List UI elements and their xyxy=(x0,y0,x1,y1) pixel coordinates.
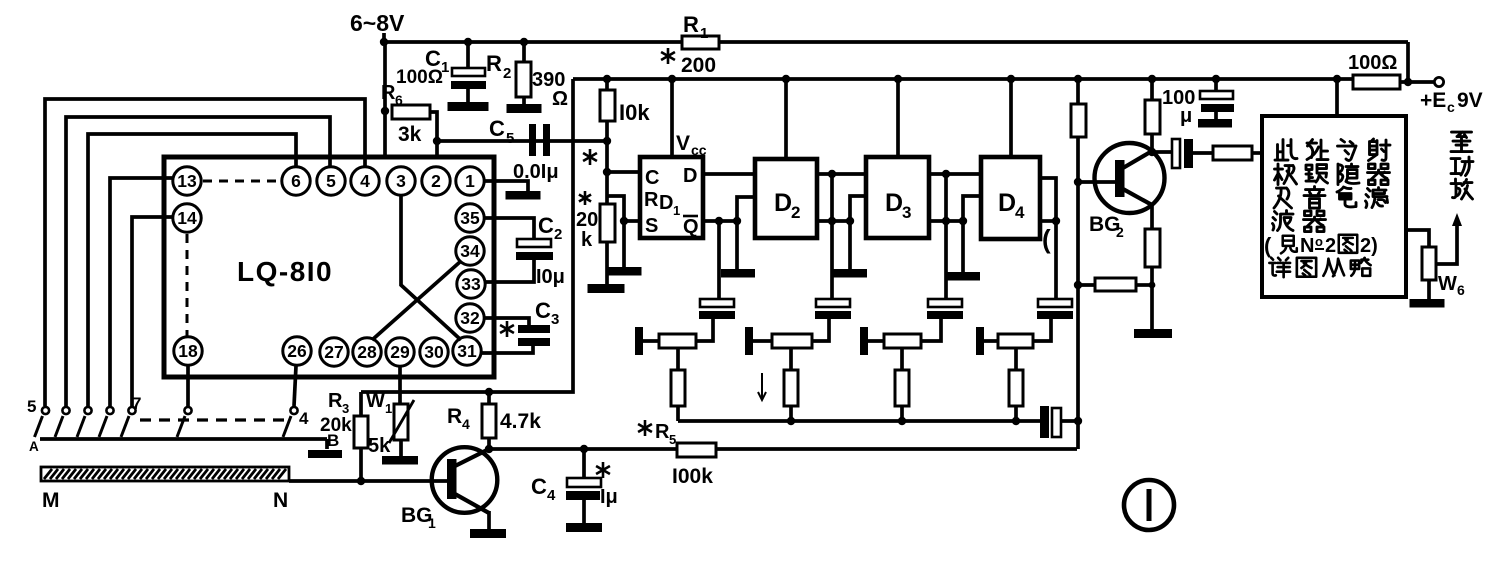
label D4 xyxy=(998,189,1025,222)
svg-text:A: A xyxy=(29,439,39,454)
svg-text:4.7k: 4.7k xyxy=(500,410,541,433)
label C5 value 0.01u xyxy=(513,161,559,183)
svg-text:34: 34 xyxy=(460,241,480,261)
svg-text:+E: +E xyxy=(1420,89,1446,112)
svg-text:2: 2 xyxy=(554,226,562,243)
label R4 xyxy=(447,405,470,432)
label C4 value 1u xyxy=(596,462,618,508)
pin 26 xyxy=(283,337,311,365)
wire +Ec rail xyxy=(573,78,1434,86)
wire pin18 drop xyxy=(186,366,190,406)
svg-text:W: W xyxy=(1438,273,1457,295)
label M xyxy=(42,489,60,512)
svg-text:(: ( xyxy=(1264,233,1272,258)
pin 35 xyxy=(456,204,484,232)
svg-text:C: C xyxy=(538,213,554,238)
pin 30 xyxy=(420,338,448,366)
stage block D3 xyxy=(866,157,929,238)
pin 3 xyxy=(387,167,415,195)
label box line5 xyxy=(1264,233,1378,258)
svg-text:I0k: I0k xyxy=(619,100,650,125)
svg-text:100Ω: 100Ω xyxy=(1348,52,1397,74)
wire pin3 to pin31 xyxy=(401,196,461,340)
svg-text:R: R xyxy=(486,51,502,76)
svg-text:I0μ: I0μ xyxy=(536,266,565,288)
label R5 xyxy=(638,420,676,447)
resistor 20k xyxy=(600,204,615,284)
svg-text:1: 1 xyxy=(385,401,392,416)
svg-text:6~8V: 6~8V xyxy=(350,10,405,36)
wire RD1 Q to D2 xyxy=(703,197,755,269)
wire pin6 loop xyxy=(88,134,296,406)
label W1 value 5k xyxy=(368,435,391,457)
pin 5 xyxy=(317,167,345,195)
label box line2 xyxy=(1275,164,1390,185)
svg-text:5: 5 xyxy=(506,130,514,147)
label C2 xyxy=(538,213,562,243)
label R3 xyxy=(328,390,349,416)
svg-text:k: k xyxy=(581,229,593,251)
label C5 xyxy=(489,116,514,147)
pin 27 xyxy=(320,338,348,366)
ground under W6 xyxy=(1410,299,1445,308)
svg-text:3: 3 xyxy=(902,203,911,222)
label to power amp xyxy=(1451,132,1473,199)
svg-text:14: 14 xyxy=(177,208,197,228)
svg-text:R: R xyxy=(655,421,670,443)
flip-flop RD1 xyxy=(640,157,703,238)
label figure 1 xyxy=(1124,480,1174,530)
label Vcc xyxy=(676,132,707,158)
switch contact S5 xyxy=(121,407,136,437)
pin 33 xyxy=(457,270,485,298)
svg-text:D: D xyxy=(683,165,697,187)
block emitter follower box xyxy=(1262,116,1406,297)
svg-text:W: W xyxy=(366,390,385,412)
wire collector output line xyxy=(485,445,1077,453)
wire S jog xyxy=(607,196,641,225)
transistor BG1 xyxy=(432,447,498,529)
wire rail right drop xyxy=(1406,42,1410,82)
wire pin4 loop xyxy=(45,99,365,406)
pin 1 xyxy=(456,167,484,195)
svg-text:N: N xyxy=(1300,235,1314,257)
label R1 value *200 xyxy=(661,48,716,77)
pin 32 xyxy=(456,304,484,332)
capacitor series feedback xyxy=(1040,406,1078,438)
wire dashed pin14 to pin18 xyxy=(186,234,189,336)
svg-text:5k: 5k xyxy=(368,435,391,457)
label R2 value 390ohm xyxy=(532,69,568,110)
ground BG1 emitter xyxy=(470,529,506,538)
pin 2 xyxy=(422,167,450,195)
label box line1 xyxy=(1275,139,1390,161)
svg-text:3: 3 xyxy=(551,311,559,328)
ground under 20k xyxy=(588,284,625,293)
svg-text:6: 6 xyxy=(395,92,403,108)
wire base bias chain xyxy=(1074,75,1082,449)
capacitor C5 xyxy=(529,124,550,156)
svg-text:2: 2 xyxy=(1116,224,1124,240)
node feedback junction xyxy=(1074,417,1082,425)
wire N to BG1 base xyxy=(289,477,449,485)
svg-text:S: S xyxy=(645,215,658,237)
wire tone bus xyxy=(678,417,1040,425)
wire Vcc drop RD1 xyxy=(668,75,676,157)
resistor BG2 collector xyxy=(1145,75,1160,152)
capacitor C4 xyxy=(566,449,601,523)
wire D4 output loop xyxy=(1040,178,1060,225)
switch contact S2 xyxy=(55,407,70,437)
pin 14 xyxy=(173,204,201,232)
wire common line A xyxy=(40,439,327,449)
svg-text:18: 18 xyxy=(178,341,198,361)
label R3 value 20k xyxy=(320,415,352,436)
svg-text:2): 2) xyxy=(1360,235,1378,257)
svg-text:100Ω: 100Ω xyxy=(396,67,443,88)
ground pin1 xyxy=(506,191,541,200)
pin 18 xyxy=(174,337,202,365)
resistor R2 xyxy=(516,38,531,104)
resistor R1 xyxy=(682,36,719,49)
svg-text:32: 32 xyxy=(460,308,480,328)
stage block D2 xyxy=(755,159,817,238)
resistor R4 xyxy=(482,392,496,450)
svg-text:1: 1 xyxy=(465,171,475,191)
label 7 xyxy=(132,394,141,413)
svg-text:4: 4 xyxy=(1015,203,1025,222)
wire pin26 drop xyxy=(294,366,296,406)
switch contact S6 xyxy=(177,407,192,437)
svg-text:20: 20 xyxy=(576,209,598,231)
ground BG2 emitter xyxy=(1134,329,1172,338)
wire C5 line xyxy=(433,137,607,165)
svg-text:3: 3 xyxy=(396,171,406,191)
tone chain 3 xyxy=(860,221,963,421)
wire BG2 base xyxy=(1078,180,1118,184)
svg-text:30: 30 xyxy=(424,342,444,362)
label C4 xyxy=(531,474,556,504)
label R2 xyxy=(486,51,511,82)
resistor BG2 output xyxy=(1213,146,1262,160)
wire divider to C input xyxy=(603,141,641,204)
ground under W1 xyxy=(382,456,418,465)
wire pin13 loop xyxy=(110,178,172,406)
svg-text:4: 4 xyxy=(299,409,309,428)
capacitor 100u xyxy=(1200,75,1234,119)
wire D2 to D3 upper xyxy=(817,170,866,225)
svg-text:c: c xyxy=(1447,99,1455,115)
ground under 100u xyxy=(1198,119,1232,128)
switch contact S7 xyxy=(283,407,298,437)
svg-text:4: 4 xyxy=(462,416,470,432)
svg-text:D: D xyxy=(774,189,792,217)
svg-text:C: C xyxy=(645,167,659,189)
switch contact S3 xyxy=(77,407,92,437)
resistor R6 xyxy=(381,105,437,141)
svg-text:2: 2 xyxy=(431,171,441,191)
label box line3 xyxy=(1274,187,1388,209)
label D3 xyxy=(885,189,911,222)
label box line4 xyxy=(1273,211,1326,232)
mark small arrow xyxy=(758,373,766,400)
label 100ohm right xyxy=(1348,52,1397,74)
svg-text:R: R xyxy=(644,189,659,211)
label C2 value 10u xyxy=(536,266,565,288)
svg-text:D: D xyxy=(659,192,673,214)
wire D3 to D4 upper xyxy=(929,170,981,225)
wire W6 wiper arrow xyxy=(1436,213,1462,264)
label +Ec 9V xyxy=(1420,89,1483,115)
pin 4 xyxy=(351,167,379,195)
capacitor C2 xyxy=(485,218,553,282)
svg-text:1: 1 xyxy=(673,203,680,218)
svg-text:I00k: I00k xyxy=(672,465,713,488)
node 6-8V supply label xyxy=(350,10,405,42)
resistor R5 xyxy=(677,443,716,457)
wire supply drop to R3 R4 xyxy=(361,79,573,396)
svg-text:9V: 9V xyxy=(1457,89,1483,112)
label A xyxy=(29,439,39,454)
svg-text:7: 7 xyxy=(132,394,141,413)
ground under R2 xyxy=(507,104,542,113)
label R5 value 100k xyxy=(672,465,713,488)
IC LQ-810 body xyxy=(164,157,494,377)
resistor W1 xyxy=(389,366,414,456)
wire pin14 loop xyxy=(132,217,172,406)
ground under S xyxy=(607,267,642,276)
svg-text:5: 5 xyxy=(27,397,36,416)
label paren mark xyxy=(1042,224,1051,254)
pin 13 xyxy=(173,167,201,195)
svg-text:28: 28 xyxy=(357,342,377,362)
resistor BG2 emitter xyxy=(1145,205,1160,329)
capacitor C1 xyxy=(451,38,486,102)
wire pin34 to pin28 xyxy=(372,261,461,340)
transistor BG2 xyxy=(1095,143,1165,213)
wire top 6-8V rail xyxy=(380,38,1408,46)
node +Ec terminal xyxy=(1434,77,1443,86)
svg-text:R: R xyxy=(683,12,699,37)
svg-text:(: ( xyxy=(1042,224,1051,254)
svg-text:2: 2 xyxy=(791,203,800,222)
strip M-N xyxy=(41,467,289,481)
label N xyxy=(273,489,288,512)
label BG1 xyxy=(401,504,436,531)
potentiometer W6 xyxy=(1422,247,1436,299)
svg-text:μ: μ xyxy=(1180,105,1192,127)
label R4 value 4.7k xyxy=(500,410,541,433)
svg-text:C: C xyxy=(489,116,505,141)
label C1 xyxy=(425,46,449,76)
svg-text:200: 200 xyxy=(681,54,716,77)
svg-text:M: M xyxy=(42,489,60,512)
resistor BG2 feedback xyxy=(1078,278,1155,291)
svg-text:o: o xyxy=(1315,234,1323,249)
svg-text:6: 6 xyxy=(291,171,301,191)
label 100u xyxy=(1162,87,1195,127)
wire RD1 D to D2 xyxy=(703,172,755,176)
label W1 xyxy=(366,390,392,416)
wire box feed xyxy=(1333,75,1341,116)
svg-text:26: 26 xyxy=(287,341,307,361)
svg-text:LQ-8I0: LQ-8I0 xyxy=(237,256,333,287)
tone chain 2 xyxy=(745,221,851,421)
ground under C4 xyxy=(566,523,602,532)
pin 31 xyxy=(453,337,481,365)
svg-text:4: 4 xyxy=(547,487,556,504)
wire collector to cap xyxy=(1148,148,1174,156)
wire pin1 ground xyxy=(485,181,528,191)
wire Vcc drop D4 xyxy=(1007,75,1015,157)
svg-text:C: C xyxy=(531,474,547,499)
svg-text:31: 31 xyxy=(457,341,477,361)
svg-text:2: 2 xyxy=(1325,235,1336,257)
ground stage1 xyxy=(721,269,755,278)
switch contact S4 xyxy=(99,407,114,437)
svg-text:1: 1 xyxy=(428,515,436,531)
label 10k xyxy=(619,100,650,125)
svg-text:3: 3 xyxy=(342,401,349,416)
label LQ-810 xyxy=(237,256,333,287)
svg-text:C: C xyxy=(535,298,551,323)
stage block D4 xyxy=(981,157,1040,239)
svg-text:N: N xyxy=(273,489,288,512)
label RD1 pins xyxy=(644,165,699,238)
resistor 10k xyxy=(600,75,615,141)
tone chain 4 xyxy=(976,221,1073,421)
svg-text:13: 13 xyxy=(177,171,197,191)
wire D2 to D3 lower xyxy=(817,196,866,269)
svg-text:Iμ: Iμ xyxy=(600,486,618,508)
label C3 xyxy=(500,298,559,337)
node divider junction xyxy=(583,137,611,165)
svg-text:Q: Q xyxy=(683,216,699,238)
svg-text:6: 6 xyxy=(1457,282,1465,298)
svg-text:5: 5 xyxy=(669,432,676,447)
switch contact S1 xyxy=(35,407,50,437)
wire Vcc drop D2 xyxy=(782,75,790,159)
label box line6 xyxy=(1269,258,1370,277)
wire 6-8V drop to pin 27 xyxy=(334,42,385,339)
svg-text:20k: 20k xyxy=(320,415,352,436)
label 4 xyxy=(299,409,309,428)
ground stage2 xyxy=(833,269,867,278)
label D2 xyxy=(774,189,800,222)
wire D3 to D4 lower xyxy=(929,196,981,272)
pin 28 xyxy=(353,338,381,366)
label 5 xyxy=(27,397,36,416)
ground B xyxy=(308,450,342,458)
svg-text:35: 35 xyxy=(460,208,480,228)
wire Vcc drop D3 xyxy=(894,75,902,157)
resistor 100ohm right xyxy=(1353,75,1400,89)
capacitor BG2 coupling xyxy=(1172,139,1213,168)
label R1 xyxy=(683,12,708,42)
label W6 xyxy=(1438,273,1465,298)
svg-text:cc: cc xyxy=(691,142,707,158)
svg-text:R: R xyxy=(328,390,343,412)
pin 29 xyxy=(386,338,414,366)
svg-text:27: 27 xyxy=(324,342,343,362)
label R6 value 3k xyxy=(398,123,422,146)
label 20k xyxy=(576,191,598,251)
tone chain 1 xyxy=(635,221,735,421)
svg-text:4: 4 xyxy=(360,171,370,191)
svg-text:R: R xyxy=(447,405,462,428)
svg-text:Ω: Ω xyxy=(552,88,568,110)
pin 6 xyxy=(282,167,310,195)
wire dashed switch gang xyxy=(140,418,288,421)
wire dashed pin13 to pin6 xyxy=(203,180,280,183)
resistor R3 xyxy=(354,392,368,481)
ground under C1 xyxy=(448,102,489,111)
wire box to W6 xyxy=(1406,230,1429,247)
capacitor C3 xyxy=(481,318,550,353)
wire S ground drop xyxy=(622,221,626,267)
wire pin5 loop xyxy=(66,117,330,406)
svg-text:V: V xyxy=(676,132,690,155)
ground stage3 xyxy=(946,272,980,281)
svg-text:2: 2 xyxy=(503,65,511,82)
label 100ohm C1 xyxy=(396,67,443,88)
svg-text:D: D xyxy=(998,189,1016,217)
label R6 xyxy=(381,82,403,108)
resistor BG2 bias xyxy=(1071,104,1086,137)
svg-text:29: 29 xyxy=(390,342,410,362)
pin 34 xyxy=(456,237,484,265)
svg-text:1: 1 xyxy=(700,25,708,42)
svg-text:5: 5 xyxy=(326,171,336,191)
svg-text:D: D xyxy=(885,189,903,217)
svg-text:33: 33 xyxy=(461,274,481,294)
label B xyxy=(327,431,339,450)
label BG2 xyxy=(1089,213,1124,240)
svg-text:3k: 3k xyxy=(398,123,422,146)
